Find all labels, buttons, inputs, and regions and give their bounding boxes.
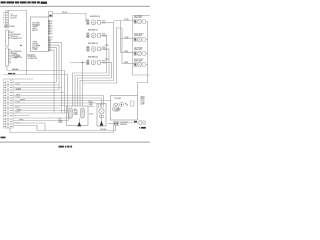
svg-text:KOOL: KOOL bbox=[90, 114, 94, 116]
module U1 top pin bbox=[49, 12, 53, 17]
cluster row 4 (stop relay) bbox=[87, 56, 107, 65]
wire from C2 to node x26.5 bbox=[8, 11, 27, 75]
module U1 top pin mark bbox=[49, 15, 51, 17]
lamp LF park mark bbox=[135, 52, 137, 54]
wire pin B5 to bus bbox=[50, 48, 56, 83]
svg-text:BLOCK: BLOCK bbox=[11, 18, 18, 20]
wire branch from junction dot bbox=[82, 63, 84, 84]
left body connector row labels bbox=[10, 82, 12, 127]
svg-text:1414 BRN: 1414 BRN bbox=[15, 89, 21, 91]
wire pin B4 to bus bbox=[50, 45, 59, 90]
wire to trailer connector bbox=[119, 122, 139, 124]
rear lamp small marks bbox=[125, 103, 128, 105]
left body connector top edge extension bbox=[13, 78, 33, 80]
connector C1 section B bbox=[6, 48, 9, 66]
rear lamp monitor ground wire bbox=[101, 118, 103, 121]
front lamps assembly box bbox=[133, 16, 152, 76]
rear lamp monitor filament bbox=[100, 110, 103, 113]
lamp LF filament bbox=[138, 20, 141, 23]
harness wire 10 bbox=[13, 105, 67, 107]
connector C1 section A bbox=[6, 30, 9, 46]
harness wire 3 bbox=[13, 87, 62, 89]
ground label dark text bbox=[139, 127, 146, 129]
rear connector bottom wire bbox=[108, 123, 114, 125]
turn relay mark bbox=[92, 47, 95, 50]
rear lamps inner text bbox=[115, 109, 121, 113]
right feed bus b bbox=[117, 28, 123, 64]
park relay right label bbox=[102, 33, 107, 38]
lamp LF park connector bbox=[134, 52, 137, 56]
footer rule bbox=[0, 142, 150, 143]
trailer connector mark bbox=[143, 121, 145, 123]
wire S204 out to right bundle bbox=[80, 22, 114, 106]
lamp RF park connector bbox=[134, 63, 137, 67]
rear lamp monitor bulb bbox=[99, 109, 104, 114]
connector C2 label bbox=[11, 14, 18, 20]
tail lamp bulb 1 filament bbox=[69, 110, 72, 113]
harness wire 7 bbox=[13, 98, 102, 105]
splice S204 body bbox=[91, 20, 96, 25]
lamp RF filament bbox=[138, 38, 141, 41]
lamp RF park filament bbox=[138, 63, 141, 66]
harness wire 13 bbox=[13, 112, 68, 114]
harness wire label dashes bbox=[16, 89, 25, 120]
lamp RF park bulb bbox=[137, 62, 141, 66]
svg-text:TURN: TURN bbox=[141, 102, 145, 104]
lamp LF park bbox=[134, 48, 148, 56]
trailer connector bulb bbox=[142, 121, 146, 125]
stop relay right label bbox=[102, 61, 107, 65]
connector C2 pin numbers bbox=[3, 12, 4, 22]
tail lamp left outside label bbox=[59, 118, 63, 125]
rear lamp bulb B bbox=[120, 103, 124, 107]
svg-text:9 BRN: 9 BRN bbox=[124, 51, 128, 53]
rear lamps right box bbox=[111, 96, 138, 121]
rear lamp bulb B filament bbox=[121, 104, 122, 105]
right feed bus a bbox=[120, 21, 122, 53]
splice S204 connector pins bbox=[87, 20, 89, 25]
splice S204 body mark bbox=[92, 21, 95, 24]
node S110 label bbox=[15, 54, 20, 60]
tail lamp assembly box bbox=[67, 106, 89, 126]
harness wire 18 bbox=[13, 126, 116, 131]
wire y70.5 to bus bbox=[7, 66, 65, 113]
rear connector C410 marks bbox=[114, 123, 118, 125]
stop relay pins bbox=[87, 60, 89, 65]
lamp LF park socket bbox=[143, 52, 146, 56]
harness wire 5 bbox=[13, 92, 65, 94]
connector C1 section A pins bbox=[9, 31, 11, 39]
park relay pin dots bbox=[87, 33, 88, 37]
wire color dark dash bbox=[134, 121, 137, 122]
splice S204 out box bbox=[98, 21, 101, 25]
harness wire 14 bbox=[13, 115, 30, 117]
lamp RF park label bbox=[134, 59, 144, 63]
lamp LF park label bbox=[134, 48, 143, 52]
cluster row 3 (turn relay) bbox=[87, 43, 107, 51]
lamp LF ground stub bbox=[146, 21, 148, 23]
lamp LF headlamp bbox=[134, 16, 148, 24]
harness wire 2 bbox=[13, 84, 59, 86]
wire feed headlamp LF bbox=[114, 20, 135, 22]
rear lamp monitor top cells bbox=[99, 105, 104, 108]
lamp RF park socket bbox=[143, 63, 146, 67]
turn relay body bbox=[91, 47, 96, 52]
harness wire labels bbox=[15, 84, 21, 125]
harness wire 11 bbox=[13, 107, 60, 109]
turn relay pin dots bbox=[87, 47, 88, 51]
turn relay right label bbox=[102, 47, 107, 51]
svg-text:CONNECTOR: CONNECTOR bbox=[11, 38, 23, 40]
svg-text:915 GRY: 915 GRY bbox=[15, 97, 20, 99]
park relay body bbox=[91, 33, 96, 38]
rear lamps right outside label bbox=[141, 96, 146, 105]
harness wire 8 bbox=[13, 100, 111, 102]
lamp LF connector bbox=[134, 20, 137, 24]
harness wire 17 bbox=[13, 123, 45, 131]
trailer connector symbol bbox=[139, 121, 142, 125]
wire cluster3 out to bundle bbox=[75, 49, 109, 106]
lamp RF park bbox=[134, 59, 148, 67]
module U1 pin dark marks bbox=[49, 21, 50, 51]
lamp RF connector bbox=[134, 38, 137, 42]
rear lamp monitor box bbox=[97, 104, 106, 127]
connector C1 section B label bbox=[11, 50, 23, 59]
footer left label bbox=[1, 137, 6, 139]
lamp RF park ground stub bbox=[146, 64, 148, 66]
connector C1 section B pins bbox=[9, 50, 11, 64]
node S110 junction dot bbox=[20, 45, 21, 46]
svg-text:1050 BLK: 1050 BLK bbox=[100, 129, 106, 131]
junction dot on stop relay wire bbox=[82, 62, 83, 63]
ground G402 arrow bbox=[100, 121, 104, 126]
header rule bbox=[0, 6, 150, 7]
svg-text:LICENSE: LICENSE bbox=[115, 109, 121, 111]
svg-text:CONNECTOR: CONNECTOR bbox=[28, 58, 39, 60]
module U1 right-edge pins bbox=[48, 20, 50, 51]
splice S204 right label bbox=[102, 21, 106, 25]
svg-text:9 BRN: 9 BRN bbox=[124, 62, 128, 64]
svg-text:STOP/: STOP/ bbox=[74, 111, 79, 113]
lamp RF socket bbox=[143, 38, 146, 42]
lamp RF ground stub bbox=[146, 39, 148, 41]
rear lamp monitor lower cells bbox=[99, 115, 103, 118]
tail lamp bulb 1 bbox=[69, 108, 73, 118]
lamp LF label bbox=[134, 16, 143, 20]
lamp RF label bbox=[134, 34, 144, 38]
left body connector pins bbox=[5, 82, 6, 127]
title text bbox=[1, 1, 48, 3]
lamp RF park mark bbox=[135, 63, 137, 65]
svg-text:KOOL: KOOL bbox=[11, 26, 15, 28]
svg-text:B2: B2 bbox=[51, 40, 53, 42]
lamp RF headlamp bbox=[134, 34, 148, 42]
cluster row 2 (park relay) bbox=[87, 29, 107, 38]
stop relay pin dots bbox=[87, 60, 88, 64]
fuse F4 bbox=[5, 25, 10, 27]
lamp LF park ground stub bbox=[146, 53, 148, 55]
harness wire 19 bbox=[10, 126, 114, 133]
footer page label bbox=[59, 146, 73, 148]
harness wire 12 bbox=[13, 110, 67, 112]
turn relay out box bbox=[98, 47, 101, 51]
rear lamp reflector (trapezoid) bbox=[113, 104, 120, 111]
rear lamp reflector marks bbox=[114, 104, 118, 108]
stop relay body bbox=[91, 60, 96, 65]
rear lamp cell bbox=[131, 101, 135, 106]
lamp LF park bulb bbox=[137, 51, 141, 55]
wire pin B6 to bus bbox=[50, 50, 54, 112]
svg-text:INTERLOCK: INTERLOCK bbox=[28, 56, 38, 58]
svg-text:B+: B+ bbox=[89, 100, 91, 102]
connector C1 section A label bbox=[11, 31, 23, 40]
connector C2 pins bbox=[6, 12, 7, 22]
harness wire 9 bbox=[13, 102, 97, 104]
splice S204 cluster bbox=[87, 15, 106, 25]
harness wire 1 bbox=[13, 82, 57, 84]
svg-text:TURN: TURN bbox=[74, 112, 78, 114]
wire feed headlamp RF bbox=[121, 38, 135, 40]
ground G401 stem bbox=[78, 118, 80, 122]
module U1 lower text bbox=[32, 42, 41, 52]
svg-text:P105: P105 bbox=[105, 59, 108, 61]
park relay mark bbox=[92, 34, 95, 37]
park relay out box bbox=[98, 34, 101, 38]
harness wire 15 bbox=[13, 113, 72, 118]
svg-text:RIGHT: RIGHT bbox=[141, 96, 145, 98]
right ground bus bbox=[138, 22, 148, 96]
svg-text:B1: B1 bbox=[51, 37, 53, 39]
wire cluster4 out to bundle bbox=[78, 62, 112, 106]
svg-text:STOP/: STOP/ bbox=[141, 100, 146, 102]
svg-text:918 PPL: 918 PPL bbox=[15, 107, 20, 109]
lamp LF park filament bbox=[138, 52, 141, 55]
harness wire 16 bbox=[13, 113, 69, 121]
wire U1 to S204 bbox=[53, 14, 87, 22]
svg-text:C1: C1 bbox=[10, 80, 12, 82]
left body connector block bbox=[4, 79, 14, 128]
rear lamp monitor left label bbox=[89, 100, 94, 107]
wire y74.5 label bbox=[8, 73, 15, 74]
wire feed park RF bbox=[122, 63, 134, 65]
wire extra bundle line bbox=[83, 27, 117, 106]
wire pin B3 to bus bbox=[50, 43, 61, 113]
fuse F4 marks bbox=[5, 26, 8, 27]
svg-text:RELAY: RELAY bbox=[32, 29, 38, 32]
svg-text:C1: C1 bbox=[15, 54, 17, 56]
ground G401 arrow bbox=[77, 122, 81, 127]
wire feed park LF bbox=[121, 52, 135, 54]
turn relay pins bbox=[87, 46, 89, 51]
shift interlock label bbox=[28, 53, 39, 60]
lamp RF bulb bbox=[137, 37, 141, 41]
svg-text:919 WHT: 919 WHT bbox=[15, 112, 21, 114]
lamp LF bulb bbox=[137, 19, 141, 23]
svg-text:CONN: CONN bbox=[32, 49, 38, 51]
lamp LF socket bbox=[143, 20, 146, 24]
module U1 upper text bbox=[32, 21, 41, 32]
svg-text:S231 P205 C3: S231 P205 C3 bbox=[88, 43, 98, 45]
module U1 (DRL module) box bbox=[31, 17, 49, 52]
module U1 pin labels bbox=[51, 20, 53, 42]
svg-text:GRY: GRY bbox=[15, 58, 18, 60]
lamp RF connector mark bbox=[135, 38, 137, 40]
wire cluster2 out to bundle bbox=[73, 35, 107, 106]
svg-text:920 BLK: 920 BLK bbox=[15, 123, 20, 125]
splice S204 pin dots bbox=[87, 20, 88, 24]
connector C2 (IP fuse block) bbox=[6, 11, 9, 24]
harness wire 4 bbox=[13, 89, 59, 91]
svg-text:CHECK: CHECK bbox=[89, 106, 94, 108]
park relay pins bbox=[87, 33, 89, 38]
tail lamp bulb 2 bbox=[81, 108, 85, 118]
stop relay mark bbox=[92, 61, 95, 64]
left body connector pin cells bbox=[7, 82, 9, 128]
tail lamp bulb 2 filament bbox=[81, 110, 84, 113]
wire y74.5 to bus bbox=[4, 75, 68, 114]
harness wire 6 bbox=[13, 96, 104, 105]
stop relay out box bbox=[98, 61, 101, 65]
svg-text:BODY: BODY bbox=[59, 122, 63, 124]
rear connector C410 label bbox=[120, 121, 128, 126]
svg-text:745 BLK: 745 BLK bbox=[15, 84, 20, 86]
rear connector C410 bbox=[114, 122, 119, 126]
tail lamp text bbox=[74, 108, 79, 116]
lamp LF connector mark bbox=[135, 20, 137, 22]
wire into stop relay with junction bbox=[70, 62, 87, 64]
